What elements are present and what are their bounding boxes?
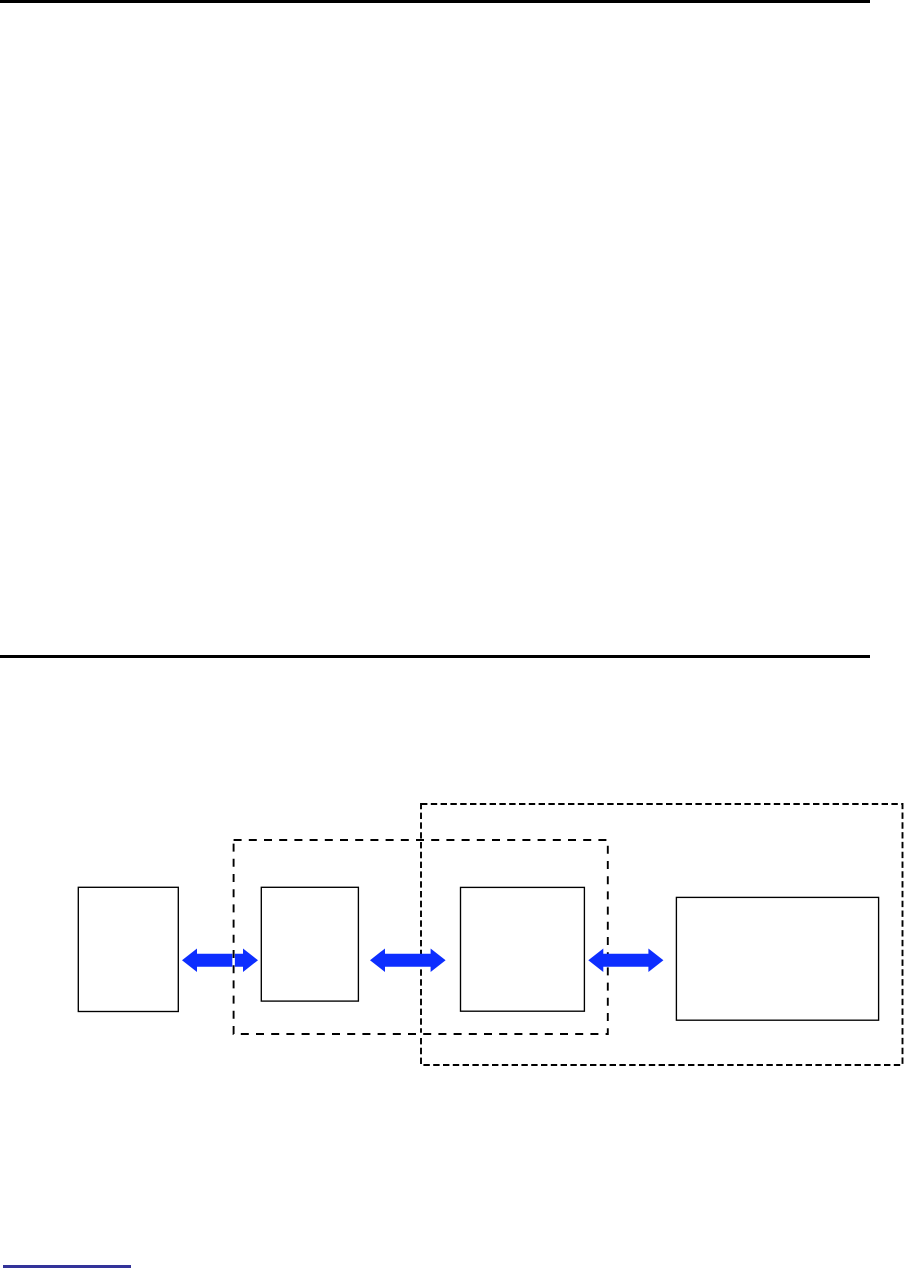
inner dashed box (white underlay) bbox=[234, 840, 608, 1034]
top rule bbox=[0, 0, 870, 3]
box 3 bbox=[461, 887, 585, 1011]
arrow 3 (right double arrow) bbox=[588, 948, 663, 972]
arrow 1 (left double arrow) bbox=[182, 948, 258, 972]
box 4 bbox=[676, 897, 878, 1020]
outer dashed box (white underlay) bbox=[421, 804, 903, 1065]
box 1 bbox=[78, 887, 178, 1011]
arrow 2 (middle double arrow) bbox=[370, 948, 446, 972]
box 2 bbox=[261, 887, 358, 1001]
section divider rule bbox=[0, 655, 870, 659]
footnote rule (clipped link underline) bbox=[3, 1265, 132, 1268]
